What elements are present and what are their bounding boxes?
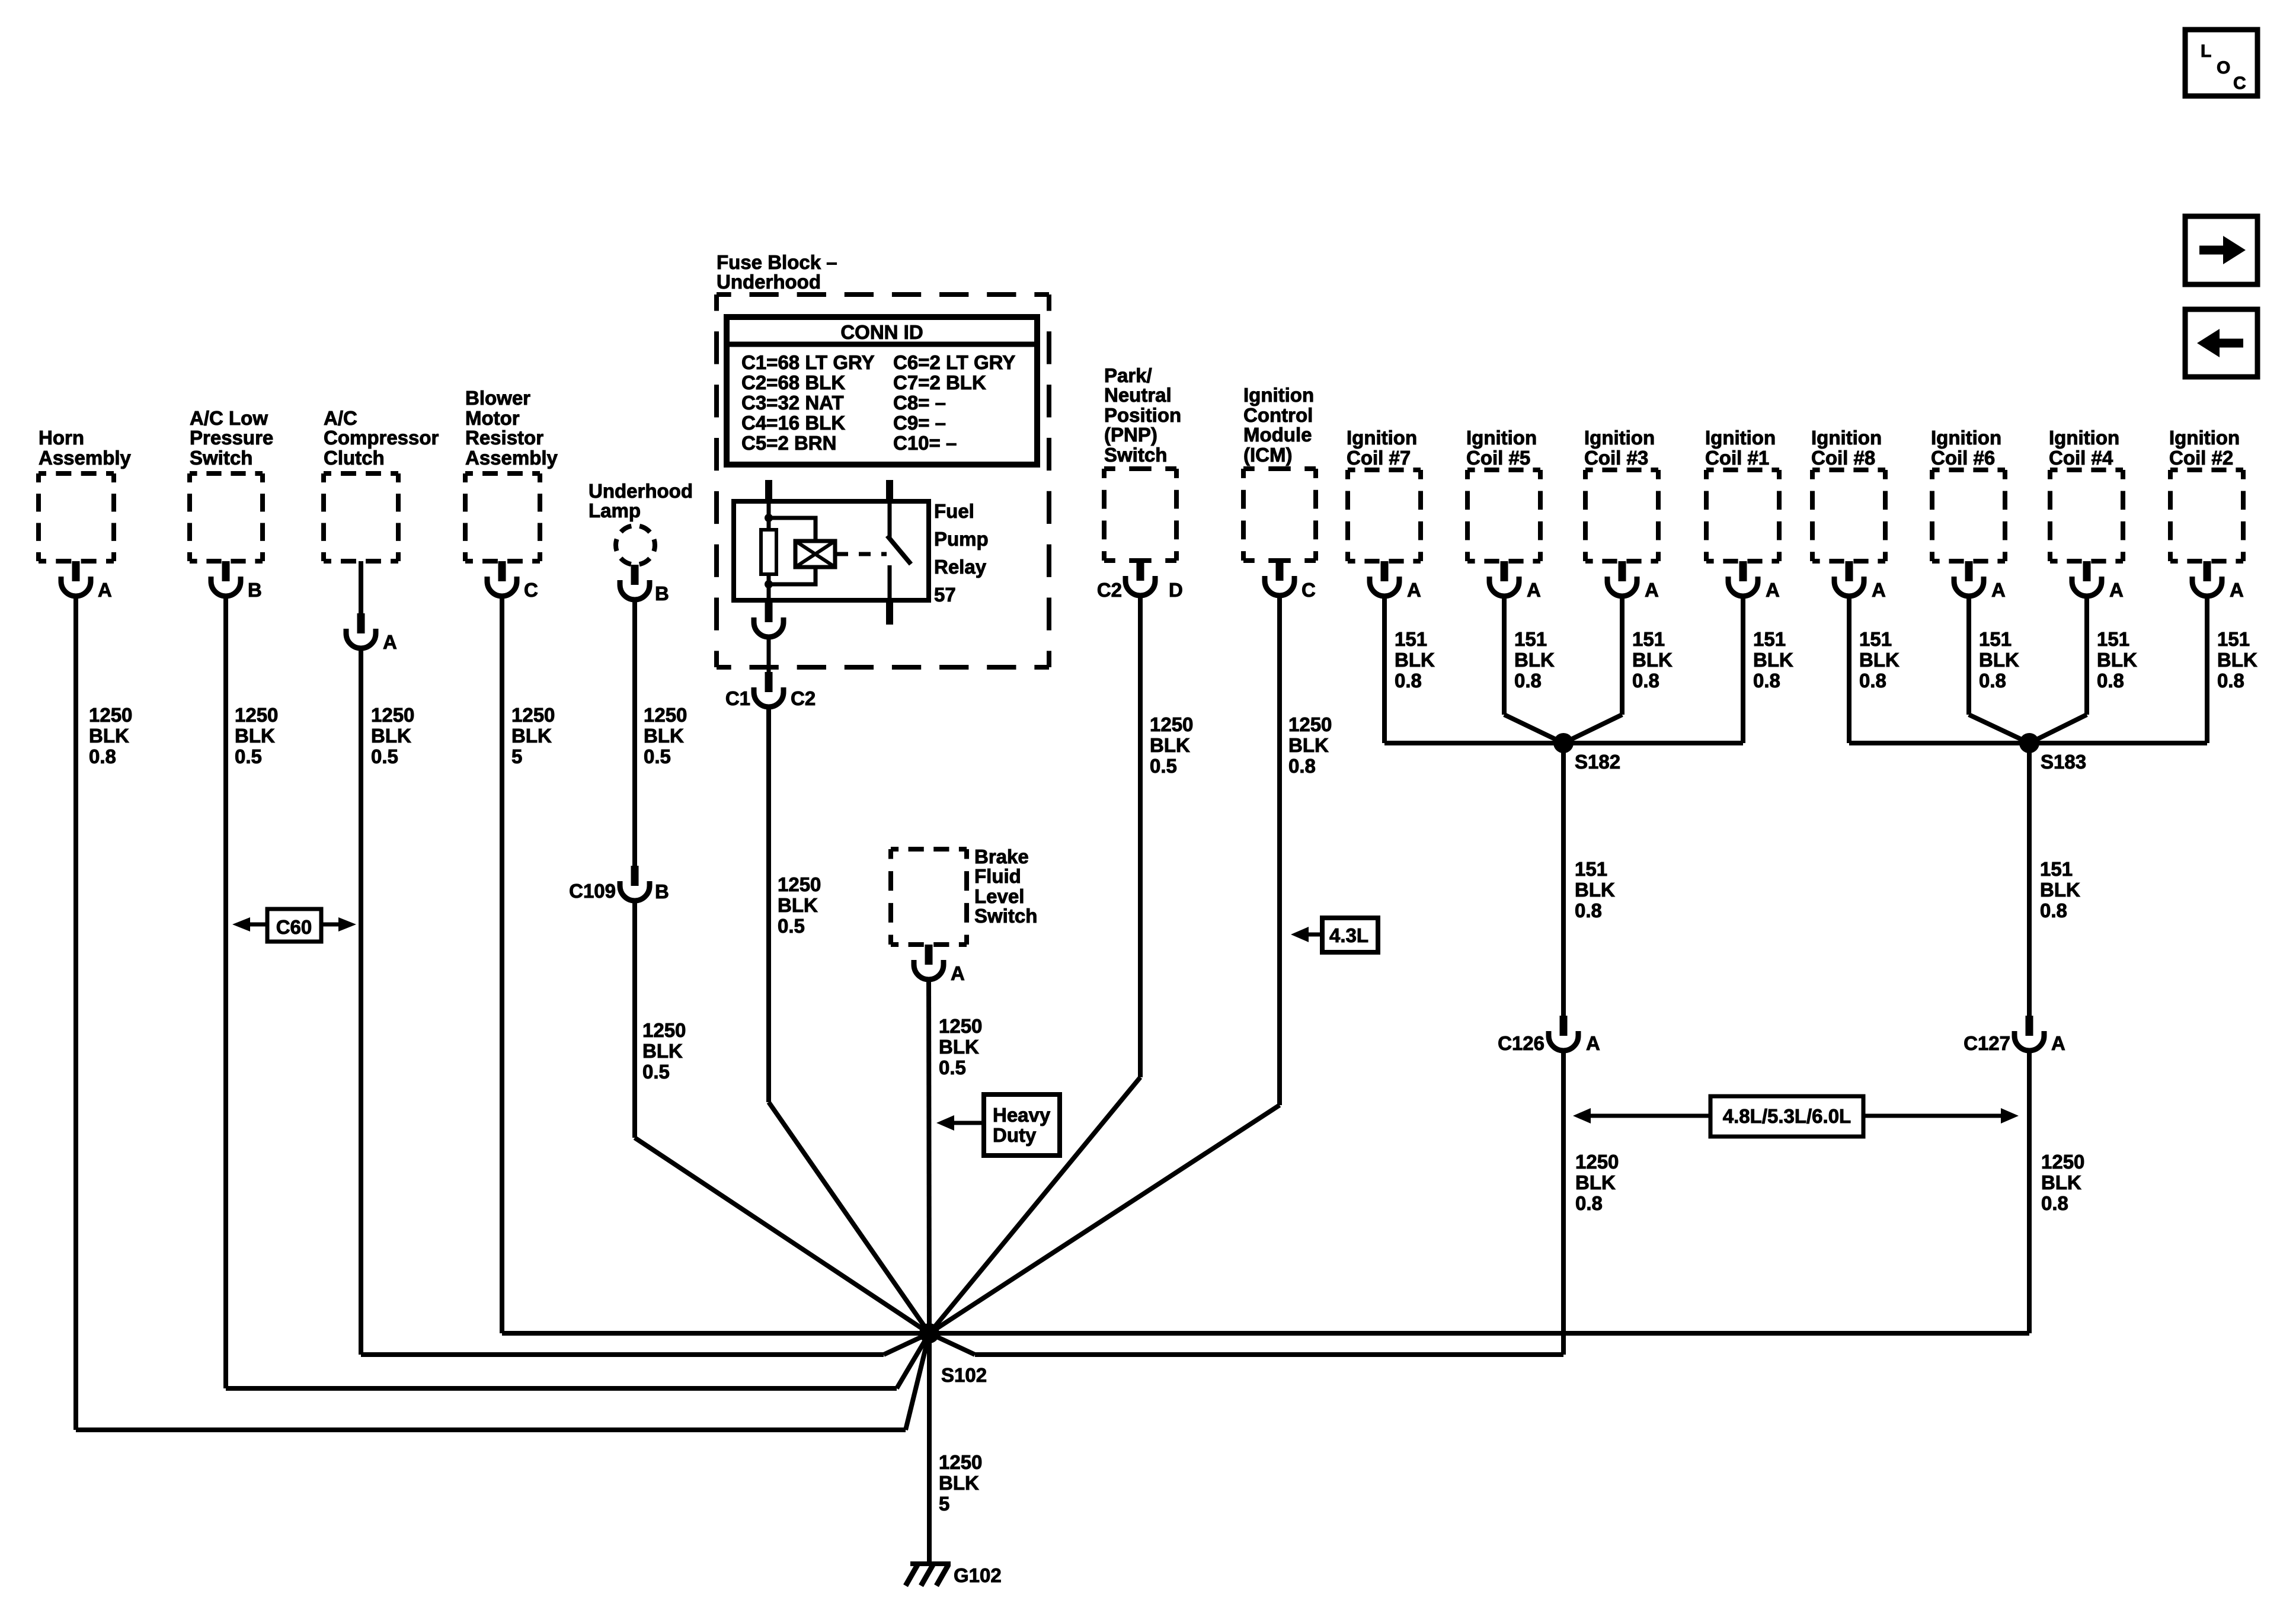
- svg-text:1250: 1250: [1150, 713, 1193, 735]
- tag Heavy Duty (with arrow): [936, 1094, 1060, 1156]
- wire 151 BLK 0.8 (coil #3 to S182): [1563, 596, 1622, 743]
- svg-text:4.8L/5.3L/6.0L: 4.8L/5.3L/6.0L: [1723, 1105, 1851, 1127]
- svg-text:BLK: BLK: [1859, 649, 1900, 671]
- svg-text:1250: 1250: [778, 873, 821, 895]
- svg-text:1250: 1250: [89, 704, 132, 726]
- tag 4.3L (with arrow): [1291, 918, 1378, 952]
- svg-text:C60: C60: [276, 916, 312, 938]
- component Ignition Coil #1 (dashed box): [1706, 470, 1779, 561]
- svg-text:BLK: BLK: [1575, 1172, 1616, 1193]
- svg-text:1250: 1250: [2041, 1151, 2084, 1173]
- svg-text:BLK: BLK: [235, 725, 275, 747]
- component A/C Compressor Clutch label: [324, 407, 439, 469]
- svg-text:Coil #6: Coil #6: [1931, 447, 1995, 469]
- svg-text:Control: Control: [1243, 404, 1313, 426]
- svg-text:BLK: BLK: [2097, 649, 2137, 671]
- svg-text:Module: Module: [1243, 424, 1312, 446]
- svg-text:D: D: [1169, 579, 1183, 601]
- svg-text:A: A: [2051, 1032, 2065, 1054]
- svg-text:0.8: 0.8: [1575, 1192, 1603, 1214]
- svg-text:Switch: Switch: [974, 905, 1037, 927]
- connector pin B (underhood lamp): [620, 565, 669, 604]
- connector C127 pin A: [1964, 1016, 2065, 1054]
- value label 1250 BLK 0.5 (A/C low pressure): [235, 704, 278, 767]
- connector C60 (marker box with arrows): [232, 909, 356, 942]
- svg-text:1250: 1250: [1288, 713, 1332, 735]
- component Ignition Coil #4 label: [2049, 427, 2119, 469]
- wire 1250 BLK 0.5 (PNP to S102): [929, 596, 1140, 1333]
- component Ignition Control Module (ICM) label: [1243, 384, 1314, 466]
- relay Fuel Pump Relay 57 (outline): [734, 501, 929, 600]
- tag 4.8L/5.3L/6.0L (with double arrow): [1573, 1096, 2019, 1137]
- value label 151 BLK 0.8 (Coil #6): [1979, 628, 2019, 692]
- svg-text:Coil #8: Coil #8: [1811, 447, 1875, 469]
- svg-text:BLK: BLK: [644, 725, 684, 747]
- wire ground bus (blower / C127 horizontal through S102): [502, 1331, 2029, 1336]
- svg-text:Resistor: Resistor: [465, 427, 543, 449]
- value label 151 BLK 0.8 (Coil #2): [2217, 628, 2257, 692]
- svg-text:BLK: BLK: [1632, 649, 1673, 671]
- svg-text:Park/: Park/: [1104, 364, 1152, 386]
- svg-text:BLK: BLK: [642, 1040, 683, 1062]
- svg-text:A: A: [1766, 579, 1780, 601]
- svg-text:BLK: BLK: [2217, 649, 2257, 671]
- wire 1250 BLK 0.8 (ICM to S102): [929, 596, 1280, 1333]
- svg-text:0.8: 0.8: [2041, 1192, 2068, 1214]
- wire 1250 BLK 0.5 (lamp to C109): [632, 600, 637, 866]
- wire relay to C1/C2: [767, 637, 771, 672]
- svg-text:5: 5: [939, 1493, 949, 1515]
- CONN ID table entries (C6-C10): [893, 351, 1015, 454]
- switch contact (relay): [887, 501, 911, 600]
- value label 1250 BLK 5 (blower): [511, 704, 555, 767]
- svg-text:C5=2 BRN: C5=2 BRN: [741, 432, 836, 454]
- svg-text:BLK: BLK: [1575, 879, 1615, 901]
- connector pin A (horn): [61, 561, 112, 601]
- svg-text:BLK: BLK: [511, 725, 552, 747]
- svg-text:C9= –: C9= –: [893, 412, 946, 434]
- svg-text:0.5: 0.5: [644, 745, 671, 767]
- svg-text:Horn: Horn: [39, 427, 84, 449]
- component Park/Neutral Position (PNP) Switch label: [1104, 364, 1181, 466]
- component Ignition Coil #3 label: [1584, 427, 1655, 469]
- junction splice S182: [1553, 733, 1620, 773]
- svg-text:A: A: [98, 579, 112, 601]
- svg-text:0.5: 0.5: [778, 915, 805, 937]
- svg-text:C2: C2: [1097, 579, 1122, 601]
- svg-text:151: 151: [1753, 628, 1786, 650]
- svg-text:BLK: BLK: [371, 725, 411, 747]
- svg-text:Ignition: Ignition: [2049, 427, 2119, 449]
- component Ignition Coil #8 (dashed box): [1812, 470, 1885, 561]
- svg-text:C4=16 BLK: C4=16 BLK: [741, 412, 845, 434]
- value label 1250 BLK 0.5 (PNP): [1150, 713, 1193, 777]
- component Ignition Coil #3 (dashed box): [1585, 470, 1658, 561]
- svg-text:0.8: 0.8: [2217, 670, 2244, 692]
- svg-text:B: B: [248, 579, 262, 601]
- component Blower Motor Resistor Assembly (dashed box): [465, 473, 540, 561]
- svg-text:Assembly: Assembly: [39, 447, 132, 469]
- svg-text:BLK: BLK: [1288, 734, 1329, 756]
- junction dot (relay coil top): [765, 514, 773, 522]
- wire 151 BLK 0.8 (coil #5 to S182): [1504, 596, 1563, 743]
- svg-text:0.5: 0.5: [642, 1061, 670, 1083]
- connector pin C (blower motor resistor): [487, 561, 538, 601]
- value label 1250 BLK 0.8 (horn): [89, 704, 132, 767]
- value label 1250 BLK 0.5 (A/C compressor): [371, 704, 414, 767]
- component Horn Assembly label: [39, 427, 132, 469]
- junction splice S183: [2019, 733, 2086, 773]
- connector pin A (brake fluid level switch): [914, 945, 965, 984]
- wire 1250 BLK 0.8 (horn ground): [76, 596, 929, 1430]
- wire 1250 BLK 0.5 (A/C compressor ground): [361, 648, 929, 1355]
- component Brake Fluid Level Switch label: [974, 846, 1037, 927]
- svg-text:Ignition: Ignition: [1811, 427, 1882, 449]
- svg-text:1250: 1250: [642, 1019, 686, 1041]
- value label 151 BLK 0.8 (S182): [1575, 858, 1615, 921]
- component Ignition Coil #1 label: [1705, 427, 1776, 469]
- connector pin A (Coil #4): [2072, 561, 2124, 601]
- svg-text:C3=32 NAT: C3=32 NAT: [741, 392, 844, 414]
- svg-text:C: C: [524, 579, 538, 601]
- value label 1250 BLK 0.5 (fuse block): [778, 873, 821, 937]
- svg-text:0.8: 0.8: [1288, 755, 1316, 777]
- wire 151 BLK 0.8 (coil #8 to S183): [1849, 596, 2029, 743]
- svg-text:C127: C127: [1964, 1032, 2010, 1054]
- svg-text:C7=2 BLK: C7=2 BLK: [893, 372, 986, 393]
- connector pin A (Coil #6): [1954, 561, 2006, 601]
- svg-text:Coil #4: Coil #4: [2049, 447, 2113, 469]
- svg-text:S183: S183: [2041, 751, 2086, 773]
- svg-text:B: B: [655, 881, 669, 902]
- value label 151 BLK 0.8 (Coil #1): [1753, 628, 1793, 692]
- component Blower Motor Resistor Assembly label: [465, 387, 558, 469]
- component Ignition Coil #4 (dashed box): [2050, 470, 2123, 561]
- svg-text:(PNP): (PNP): [1104, 424, 1157, 446]
- wire relay coil branch: [769, 518, 816, 584]
- wire 151 BLK 0.8 (coil #1 to S182): [1563, 596, 1743, 743]
- svg-text:BLK: BLK: [1514, 649, 1555, 671]
- component Ignition Coil #8 label: [1811, 427, 1882, 469]
- LOC legend box (top right): [2185, 30, 2257, 96]
- svg-text:Coil #7: Coil #7: [1347, 447, 1411, 469]
- svg-text:(ICM): (ICM): [1243, 444, 1292, 466]
- svg-text:A: A: [1527, 579, 1541, 601]
- svg-text:Brake: Brake: [974, 846, 1029, 868]
- svg-text:BLK: BLK: [1979, 649, 2019, 671]
- svg-text:C126: C126: [1498, 1032, 1544, 1054]
- svg-text:0.8: 0.8: [89, 745, 116, 767]
- svg-text:1250: 1250: [939, 1451, 982, 1473]
- svg-text:57: 57: [934, 584, 956, 606]
- svg-text:Ignition: Ignition: [1243, 384, 1314, 406]
- value label 1250 BLK 0.5 (lamp lower): [642, 1019, 686, 1083]
- svg-text:0.8: 0.8: [1514, 670, 1542, 692]
- svg-text:C1=68 LT GRY: C1=68 LT GRY: [741, 351, 875, 373]
- svg-text:O: O: [2217, 58, 2230, 78]
- component Fuse Block - Underhood label: [717, 251, 837, 293]
- wire 1250 BLK 0.5 (C109 to S102): [635, 901, 929, 1333]
- connector pin C (ICM): [1265, 561, 1316, 601]
- svg-text:CONN ID: CONN ID: [840, 321, 923, 343]
- svg-text:A: A: [2230, 579, 2244, 601]
- svg-text:Level: Level: [974, 885, 1024, 907]
- svg-text:151: 151: [2217, 628, 2250, 650]
- svg-text:Ignition: Ignition: [1584, 427, 1655, 449]
- svg-text:0.8: 0.8: [1979, 670, 2006, 692]
- svg-text:BLK: BLK: [939, 1036, 979, 1058]
- component A/C Compressor Clutch (dashed box): [324, 473, 398, 561]
- svg-text:0.5: 0.5: [235, 745, 262, 767]
- wire 151 BLK 0.8 (coil #6 to S183): [1969, 596, 2029, 743]
- svg-text:BLK: BLK: [2040, 879, 2080, 901]
- svg-text:151: 151: [2040, 858, 2073, 880]
- value label 151 BLK 0.8 (Coil #3): [1632, 628, 1673, 692]
- wire 151 BLK 0.8 (coil #7 to S182): [1384, 596, 1563, 743]
- svg-text:C2: C2: [791, 687, 816, 709]
- svg-text:0.8: 0.8: [1575, 900, 1602, 921]
- svg-text:Pump: Pump: [934, 528, 989, 550]
- svg-text:Motor: Motor: [465, 407, 520, 429]
- svg-text:Relay: Relay: [934, 556, 987, 578]
- CONN ID table: [727, 317, 1037, 465]
- wire 1250 BLK 5 (S102 to G102): [927, 1333, 932, 1564]
- svg-text:Lamp: Lamp: [589, 500, 641, 521]
- svg-text:Coil #1: Coil #1: [1705, 447, 1769, 469]
- component Ignition Coil #7 (dashed box): [1348, 470, 1421, 561]
- svg-text:0.5: 0.5: [939, 1057, 966, 1078]
- svg-text:Fluid: Fluid: [974, 865, 1021, 887]
- svg-text:C6=2 LT GRY: C6=2 LT GRY: [893, 351, 1015, 373]
- junction splice S102: [919, 1323, 987, 1386]
- component Ignition Coil #5 label: [1466, 427, 1537, 469]
- connector pin A (A/C compressor clutch): [346, 613, 397, 653]
- wire 1250 BLK 5 (blower resistor ground): [500, 596, 504, 1333]
- svg-text:0.8: 0.8: [1859, 670, 1886, 692]
- svg-text:BLK: BLK: [2041, 1172, 2081, 1193]
- svg-text:BLK: BLK: [939, 1472, 979, 1494]
- svg-text:Switch: Switch: [190, 447, 252, 469]
- component Ignition Coil #6 (dashed box): [1932, 470, 2005, 561]
- svg-text:151: 151: [1979, 628, 2012, 650]
- svg-text:C10= –: C10= –: [893, 432, 957, 454]
- wire resistor bottom to pin: [767, 574, 771, 600]
- wire from A/C compressor clutch to connector: [359, 561, 363, 613]
- svg-text:151: 151: [1575, 858, 1607, 880]
- svg-text:Position: Position: [1104, 404, 1181, 426]
- wire 151 BLK 0.8 (S183 down to C127): [2027, 743, 2032, 1016]
- svg-text:1250: 1250: [1575, 1151, 1619, 1173]
- svg-text:S102: S102: [941, 1364, 987, 1386]
- svg-text:Neutral: Neutral: [1104, 384, 1172, 406]
- svg-text:A/C Low: A/C Low: [190, 407, 268, 429]
- svg-text:A: A: [1586, 1032, 1600, 1054]
- svg-text:S182: S182: [1575, 751, 1620, 773]
- svg-text:5: 5: [511, 745, 522, 767]
- svg-text:4.3L: 4.3L: [1329, 924, 1368, 946]
- wire 1250 BLK 0.5 (fuse block to S102): [769, 707, 929, 1333]
- connector pin A (Coil #8): [1834, 561, 1886, 601]
- svg-text:1250: 1250: [511, 704, 555, 726]
- svg-text:1250: 1250: [939, 1015, 982, 1037]
- svg-text:Ignition: Ignition: [1931, 427, 2001, 449]
- svg-text:Switch: Switch: [1104, 444, 1167, 466]
- wire 151 BLK 0.8 (coil #2 to S183): [2029, 596, 2207, 743]
- component Underhood Lamp (dashed circle): [616, 526, 655, 565]
- svg-text:C: C: [1302, 579, 1316, 601]
- svg-text:BLK: BLK: [1753, 649, 1793, 671]
- wire 151 BLK 0.8 (coil #4 to S183): [2029, 596, 2087, 743]
- component A/C Low Pressure Switch (dashed box): [190, 473, 263, 561]
- ground G102: [906, 1564, 1002, 1586]
- svg-text:Coil #3: Coil #3: [1584, 447, 1648, 469]
- svg-text:Heavy: Heavy: [993, 1104, 1051, 1126]
- svg-text:Coil #2: Coil #2: [2169, 447, 2233, 469]
- connector C126 pin A: [1498, 1016, 1600, 1054]
- wire 151 BLK 0.8 (S182 down to C126): [1561, 743, 1566, 1016]
- svg-text:Ignition: Ignition: [1347, 427, 1417, 449]
- connector pin A (Coil #3): [1607, 561, 1659, 601]
- svg-text:151: 151: [1632, 628, 1665, 650]
- svg-text:0.8: 0.8: [2097, 670, 2124, 692]
- value label 1250 BLK 0.5 (lamp upper): [644, 704, 687, 767]
- value label 1250 BLK 0.8 (C127): [2041, 1151, 2084, 1214]
- svg-text:0.5: 0.5: [1150, 755, 1177, 777]
- CONN ID table entries (C1-C5): [741, 351, 875, 454]
- back-arrow nav box: [2185, 309, 2257, 377]
- connector pin A (Coil #1): [1728, 561, 1780, 601]
- resistor (relay internal): [761, 530, 776, 574]
- svg-text:0.8: 0.8: [1632, 670, 1659, 692]
- svg-text:1250: 1250: [371, 704, 414, 726]
- svg-text:0.8: 0.8: [2040, 900, 2067, 921]
- coil element (box with X): [795, 541, 835, 567]
- component Ignition Coil #6 label: [1931, 427, 2001, 469]
- junction dot (relay coil bottom): [765, 580, 773, 588]
- svg-text:A: A: [951, 962, 965, 984]
- wire 1250 BLK 0.5 (A/C low pressure ground): [226, 596, 929, 1388]
- svg-text:C2=68 BLK: C2=68 BLK: [741, 372, 845, 393]
- svg-text:C109: C109: [569, 880, 616, 902]
- connector pin A (Coil #5): [1489, 561, 1541, 601]
- svg-text:BLK: BLK: [778, 894, 818, 916]
- connector C1 / C2 (fuse block): [725, 672, 816, 709]
- svg-text:B: B: [655, 582, 669, 604]
- component PNP Switch (dashed box): [1104, 469, 1176, 561]
- component Fuse Block - Underhood (dashed box): [717, 295, 1049, 667]
- svg-text:1250: 1250: [644, 704, 687, 726]
- svg-text:151: 151: [1859, 628, 1892, 650]
- svg-text:Compressor: Compressor: [324, 427, 439, 449]
- component Underhood Lamp label: [589, 480, 693, 521]
- svg-text:1250: 1250: [235, 704, 278, 726]
- component Ignition Coil #5 (dashed box): [1467, 470, 1540, 561]
- svg-text:BLK: BLK: [1150, 734, 1190, 756]
- connector (inside fuse block, below relay): [754, 602, 784, 637]
- component Ignition Coil #7 label: [1347, 427, 1417, 469]
- value label 1250 BLK 0.8 (ICM): [1288, 713, 1332, 777]
- value label 151 BLK 0.8 (Coil #4): [2097, 628, 2137, 692]
- relay pin stub (bottom right): [886, 600, 893, 625]
- component Horn Assembly (dashed box): [39, 473, 114, 561]
- svg-text:Ignition: Ignition: [1705, 427, 1776, 449]
- svg-text:Coil #5: Coil #5: [1466, 447, 1530, 469]
- svg-text:A: A: [2109, 579, 2124, 601]
- connector C2 pin D (PNP switch): [1097, 561, 1183, 601]
- relay coil feed wire: [767, 501, 771, 530]
- svg-text:C: C: [2233, 73, 2246, 93]
- component A/C Low Pressure Switch label: [190, 407, 273, 469]
- connector pin B (A/C low pressure switch): [211, 561, 262, 601]
- svg-text:C8= –: C8= –: [893, 392, 946, 414]
- svg-text:A: A: [1645, 579, 1659, 601]
- svg-text:A: A: [1407, 579, 1421, 601]
- svg-text:151: 151: [2097, 628, 2129, 650]
- svg-text:Blower: Blower: [465, 387, 530, 409]
- connector C109 pin B: [569, 866, 669, 902]
- wire 1250 BLK 0.8 (C127 down to ground bus): [2027, 1051, 2032, 1333]
- value label 151 BLK 0.8 (S183): [2040, 858, 2080, 921]
- connector pin A (Coil #2): [2192, 561, 2244, 601]
- svg-text:A: A: [1991, 579, 2006, 601]
- svg-text:A: A: [1872, 579, 1886, 601]
- component ICM (dashed box): [1243, 469, 1316, 561]
- svg-text:G102: G102: [954, 1564, 1002, 1586]
- relay label Fuel Pump Relay 57: [934, 500, 989, 606]
- svg-text:Fuel: Fuel: [934, 500, 974, 522]
- value label 151 BLK 0.8 (Coil #8): [1859, 628, 1900, 692]
- svg-text:Ignition: Ignition: [1466, 427, 1537, 449]
- connector pin A (Coil #7): [1370, 561, 1421, 601]
- svg-text:0.8: 0.8: [1753, 670, 1780, 692]
- svg-text:151: 151: [1395, 628, 1427, 650]
- svg-text:0.5: 0.5: [371, 745, 398, 767]
- svg-text:Duty: Duty: [993, 1124, 1037, 1146]
- svg-text:BLK: BLK: [89, 725, 129, 747]
- wire 1250 BLK 0.8 (C126 to S102): [929, 1051, 1563, 1355]
- svg-text:C1: C1: [725, 687, 750, 709]
- wire 1250 BLK 0.5 (brake switch to S102): [929, 980, 929, 1333]
- value label 151 BLK 0.8 (Coil #7): [1395, 628, 1435, 692]
- svg-text:Underhood: Underhood: [589, 480, 693, 502]
- svg-text:BLK: BLK: [1395, 649, 1435, 671]
- value label 1250 BLK 0.8 (C126): [1575, 1151, 1619, 1214]
- dashed actuation link: [836, 552, 887, 556]
- svg-text:Underhood: Underhood: [717, 271, 821, 293]
- svg-text:L: L: [2201, 41, 2211, 61]
- value label 151 BLK 0.8 (Coil #5): [1514, 628, 1555, 692]
- svg-text:Assembly: Assembly: [465, 447, 558, 469]
- svg-text:151: 151: [1514, 628, 1547, 650]
- value label 1250 BLK 5 (S102-G102): [939, 1451, 982, 1515]
- svg-text:Ignition: Ignition: [2169, 427, 2240, 449]
- component Ignition Coil #2 (dashed box): [2170, 470, 2243, 561]
- component Brake Fluid Level Switch (dashed box): [891, 849, 967, 945]
- component Ignition Coil #2 label: [2169, 427, 2240, 469]
- svg-text:A: A: [383, 631, 397, 653]
- relay pin stubs (top): [765, 480, 893, 501]
- svg-text:Fuse Block –: Fuse Block –: [717, 251, 837, 273]
- forward-arrow nav box: [2185, 216, 2257, 284]
- svg-text:Clutch: Clutch: [324, 447, 385, 469]
- svg-text:Pressure: Pressure: [190, 427, 273, 449]
- value label 1250 BLK 0.5 (brake switch): [939, 1015, 982, 1078]
- svg-text:0.8: 0.8: [1395, 670, 1422, 692]
- svg-text:A/C: A/C: [324, 407, 357, 429]
